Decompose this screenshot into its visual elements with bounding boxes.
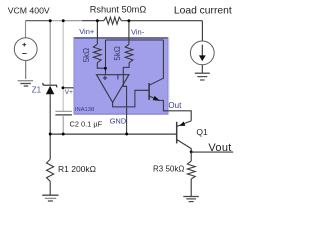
minus sign in VCM (22, 53, 26, 55)
wire Z1 branch upper (49, 21, 51, 86)
wire collector riser (149, 40, 163, 85)
wire R1 top (49, 134, 51, 159)
resistor R1 (47, 159, 54, 181)
svg-text:V+: V+ (65, 89, 73, 96)
plus sign in VCM (22, 43, 26, 47)
wire Vin+ drop (96, 21, 98, 44)
svg-text:GND: GND (110, 116, 127, 125)
transistor internal NPN bar (148, 83, 150, 100)
svg-text:Vout: Vout (208, 142, 231, 154)
voltage source VCM (14, 38, 37, 61)
svg-text:R3 50kΩ: R3 50kΩ (153, 164, 184, 173)
wire R3 top (190, 152, 192, 161)
wire Vout (191, 151, 233, 153)
svg-text:Q1: Q1 (196, 127, 208, 137)
wire Out pin to Q1 emitter corner (168, 111, 191, 121)
wire VCM source drop (25, 21, 27, 38)
wire load to ground (201, 65, 203, 73)
ground VCM (18, 81, 33, 86)
wire noninverting input (105, 40, 107, 75)
transistor Q1 bar (176, 122, 178, 144)
wire V+ pin (63, 87, 76, 89)
svg-text:INA138: INA138 (75, 107, 94, 113)
wire internal top horizontal (106, 39, 164, 41)
transistor internal NPN emitter (149, 96, 168, 111)
current source load (190, 41, 214, 65)
wire op-amp output to base (113, 90, 149, 107)
wire top rail VCM to node A (26, 20, 51, 22)
wire 5k right bottom step to inverting input and GND pin (123, 63, 129, 134)
wire VCM to ground (25, 61, 27, 79)
node bottom rail C2 (62, 133, 65, 136)
wire Vin- drop (128, 21, 130, 44)
ground load (195, 73, 210, 80)
svg-text:Vin-: Vin- (131, 27, 145, 36)
svg-text:VCM 400V: VCM 400V (8, 6, 50, 16)
wire top rail right (122, 20, 203, 22)
ground R1 (42, 195, 58, 201)
node bottom rail Z1 (49, 133, 52, 136)
wire bottom rail (50, 133, 177, 135)
capacitor C2 (55, 111, 72, 115)
wire C2 branch upper (62, 21, 64, 112)
plus mark op-amp (103, 76, 107, 80)
node top rail Z1 tap (49, 19, 52, 22)
minus mark op-amp (117, 75, 119, 80)
svg-text:5kΩ: 5kΩ (82, 48, 91, 62)
node V+ tee (62, 86, 65, 89)
wire Z1 anode down (49, 94, 51, 134)
resistor 5k left (93, 44, 101, 62)
wire Q1 collector (177, 140, 191, 153)
arrow internal NPN emitter (153, 96, 160, 101)
wire load current drop (201, 21, 203, 41)
svg-text:R1 200kΩ: R1 200kΩ (58, 164, 96, 174)
node top rail Vin+ tap (96, 19, 99, 22)
resistor 5k right (125, 44, 133, 62)
svg-text:Rshunt 50mΩ: Rshunt 50mΩ (90, 5, 147, 15)
node op-amp plus input (104, 67, 107, 70)
svg-text:5kΩ: 5kΩ (113, 46, 122, 60)
op-amp U1 (97, 75, 129, 103)
wire top rail node A to node B (50, 20, 63, 22)
ground R3 (183, 197, 199, 202)
node top rail C2 tap (62, 19, 65, 22)
wire Q1 emitter diagonal (177, 121, 191, 127)
svg-text:Z1: Z1 (32, 85, 42, 94)
wire R1 bottom (49, 181, 51, 195)
resistor Rshunt (104, 17, 122, 24)
arrow load current source (199, 45, 206, 61)
arrow Q1 emitter PNP (179, 122, 185, 126)
wire R3 bottom (190, 179, 192, 196)
svg-text:C2 0.1 µF: C2 0.1 µF (70, 119, 103, 128)
node top rail Vin- tap (127, 19, 130, 22)
wire C2 bottom (62, 115, 64, 134)
IC body INA138 box (74, 37, 169, 114)
svg-text:Load current: Load current (174, 5, 232, 16)
svg-text:Out: Out (168, 101, 182, 110)
node bottom rail GND pin (125, 133, 128, 136)
svg-text:Vin+: Vin+ (79, 27, 95, 36)
node Vout (190, 150, 193, 153)
wire top rail node B to Vin+ tap (63, 20, 82, 22)
wire 5k left bottom step (97, 63, 105, 68)
zener diode Z1 (43, 83, 57, 94)
resistor R3 (187, 161, 195, 179)
